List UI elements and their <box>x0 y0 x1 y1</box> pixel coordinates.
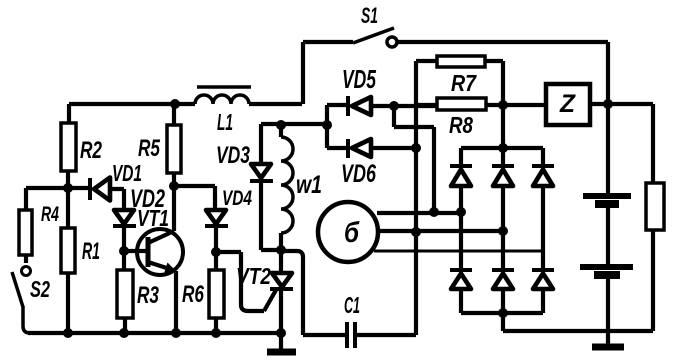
svg-text:VT2: VT2 <box>236 263 271 289</box>
node phase A col1 <box>456 207 466 217</box>
switch S2 <box>12 267 50 334</box>
node VT1 base junction <box>119 246 129 256</box>
svg-text:VD5: VD5 <box>342 64 376 94</box>
ground under VT2 <box>267 333 296 352</box>
diode VD4 <box>205 187 252 252</box>
inductor L1 <box>195 87 251 135</box>
node VD5 output <box>389 101 399 111</box>
capacitor C1 <box>281 251 416 348</box>
wire right bracket vertical <box>501 61 505 148</box>
diode VD5 <box>327 64 437 148</box>
node R5 bottom / collector <box>169 181 179 231</box>
ground battery <box>592 344 624 351</box>
diode bridge lower 3 <box>532 270 554 313</box>
transistor VT1 <box>124 205 183 333</box>
node bridge top <box>498 143 508 153</box>
wire bridge top rail <box>461 146 543 150</box>
diode VD3 <box>216 124 281 250</box>
diode bridge upper 2 <box>492 148 514 270</box>
svg-text:R3: R3 <box>137 282 159 309</box>
svg-text:R5: R5 <box>138 135 160 162</box>
wire bridge bottom rail <box>461 311 543 315</box>
svg-text:R1: R1 <box>82 238 100 265</box>
svg-text:VD1: VD1 <box>112 160 142 186</box>
resistor R6 <box>182 252 224 333</box>
wire bottom rail left <box>28 331 281 335</box>
diode bridge lower 1 <box>450 270 472 313</box>
svg-text:L1: L1 <box>217 109 233 135</box>
node phase B col2 <box>498 226 508 236</box>
node VD6 to bracket <box>411 143 421 153</box>
wire R5 to VD4 <box>174 186 215 208</box>
svg-text:R8: R8 <box>449 112 473 138</box>
node VD4 bottom <box>211 247 221 257</box>
resistor R5 <box>138 104 181 186</box>
wire phase A <box>377 211 461 215</box>
wire R4 row <box>26 186 90 190</box>
svg-text:R7: R7 <box>451 70 477 96</box>
generator б <box>318 202 378 262</box>
winding w1 <box>281 125 322 250</box>
thyristor VT2 <box>236 250 293 333</box>
wire phase C <box>374 250 543 253</box>
wire phase B <box>379 229 503 233</box>
node R1 bottom <box>63 328 73 338</box>
node R2 bottom junction <box>63 183 73 193</box>
relay Z <box>546 84 653 125</box>
node VT2 cathode bottom <box>276 328 286 338</box>
node R3 bottom <box>119 328 129 338</box>
svg-text:w1: w1 <box>296 171 322 199</box>
wire VD5 junction to phase A <box>394 106 434 212</box>
battery GB <box>580 104 633 344</box>
diode bridge upper 3 <box>532 148 554 270</box>
node phase A step <box>429 207 439 217</box>
svg-text:S1: S1 <box>361 3 378 28</box>
svg-text:R4: R4 <box>41 203 59 226</box>
wire VD4 to VT2 gate <box>216 252 264 311</box>
wire w1 top rail <box>261 122 327 126</box>
diode bridge lower 2 <box>492 270 514 331</box>
resistor R2 <box>61 104 102 188</box>
svg-text:Z: Z <box>559 90 577 118</box>
resistor R1 <box>61 188 100 333</box>
resistor load right <box>646 104 664 331</box>
svg-text:VD4: VD4 <box>222 187 252 210</box>
svg-text:R2: R2 <box>80 137 102 164</box>
node bridge bottom <box>498 308 508 318</box>
diode VD6 <box>327 139 416 188</box>
svg-text:VD3: VD3 <box>216 142 250 169</box>
svg-text:R6: R6 <box>182 281 204 308</box>
diode bridge upper 1 <box>450 148 472 270</box>
wire main top rail <box>69 102 302 106</box>
resistor R7 <box>416 56 503 96</box>
wire bottom rail right <box>503 329 653 333</box>
svg-text:C1: C1 <box>344 292 360 318</box>
resistor R3 <box>117 251 159 333</box>
node phase B bracket <box>411 227 421 237</box>
node R6 bottom <box>211 328 221 338</box>
diode VD2 <box>113 185 165 251</box>
svg-text:VD6: VD6 <box>341 160 377 188</box>
resistor R8 <box>416 98 546 138</box>
node R8 right <box>498 100 508 110</box>
svg-text:VT1: VT1 <box>137 205 169 231</box>
node R5 top <box>170 99 180 109</box>
resistor R4 <box>19 188 59 263</box>
switch S1 <box>303 3 608 104</box>
node VT1 emitter bottom <box>171 328 181 338</box>
node w1 bottom <box>276 245 286 255</box>
node w1 top <box>276 120 286 130</box>
diode VD1 <box>90 160 142 209</box>
node Z right / battery top <box>603 99 613 109</box>
svg-text:S2: S2 <box>30 276 50 302</box>
node w1 wire to VD bracket <box>322 120 332 130</box>
wire left bracket vertical <box>414 61 418 335</box>
svg-text:б: б <box>344 217 360 249</box>
